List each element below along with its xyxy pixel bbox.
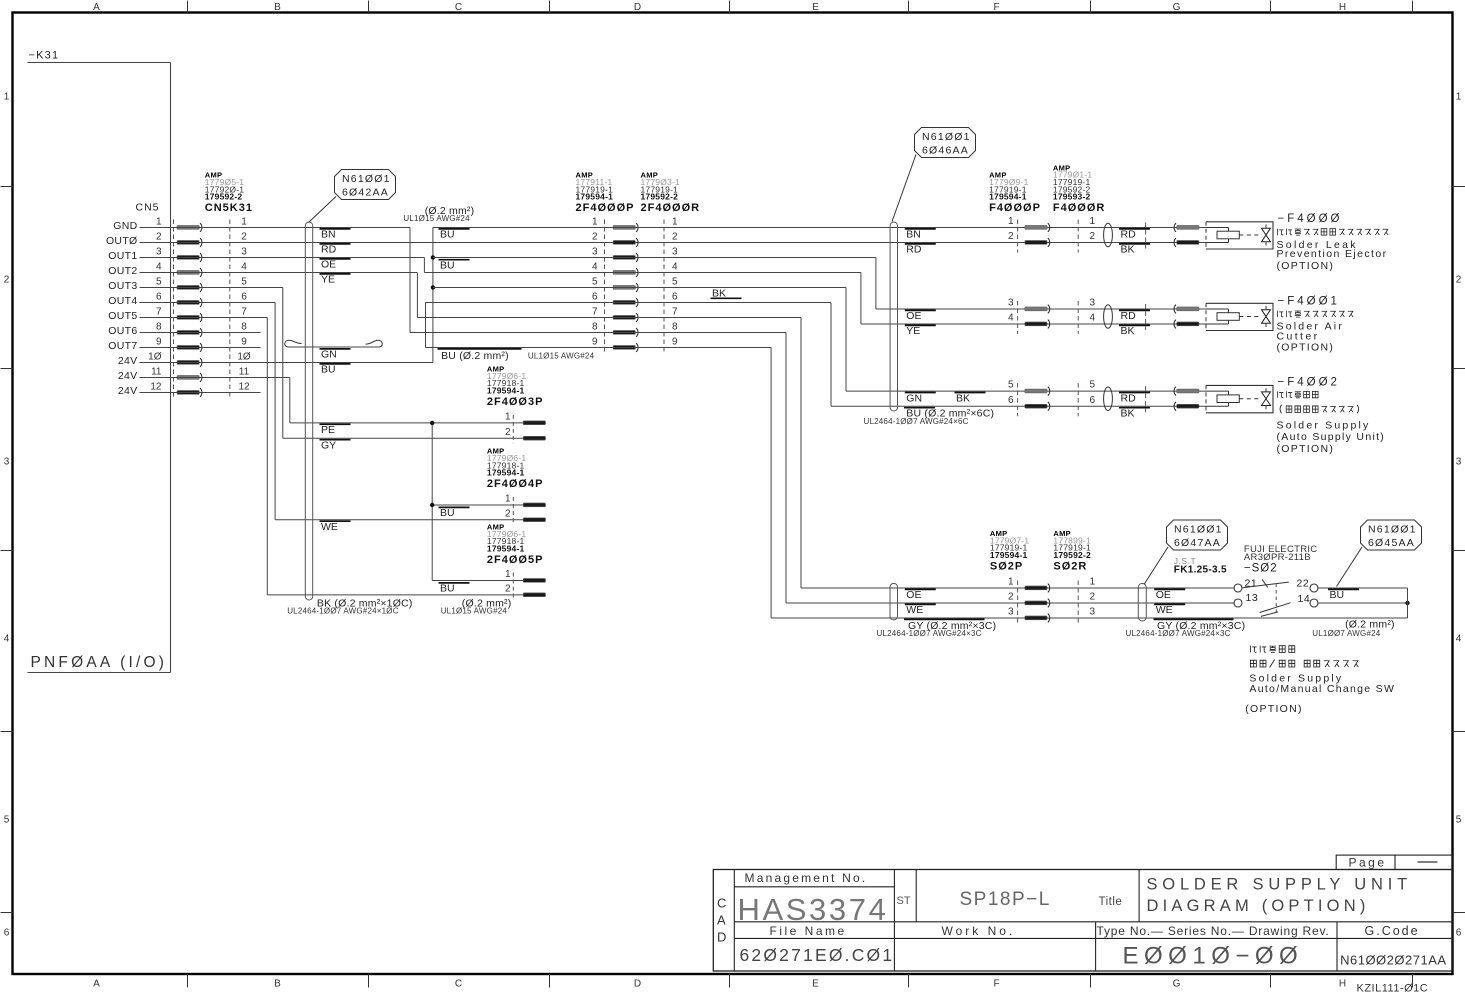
svg-text:−F4ØØ1: −F4ØØ1: [1278, 296, 1340, 308]
label BU pin9 wire: [438, 349, 595, 362]
connector 2F4003P: [487, 365, 546, 444]
svg-text:2: 2: [1456, 275, 1462, 286]
label WE row6 wire: [320, 521, 351, 533]
solenoid valve device F4000: [1206, 222, 1273, 249]
svg-text:OUT4: OUT4: [108, 295, 137, 307]
svg-text:2F4ØØ5P: 2F4ØØ5P: [487, 554, 544, 566]
svg-text:179594-1: 179594-1: [990, 550, 1028, 560]
svg-text:1: 1: [1008, 216, 1014, 227]
wire row5 to F4002 pin5: [433, 288, 1206, 392]
svg-text:5: 5: [156, 277, 162, 288]
svg-text:179594-1: 179594-1: [487, 543, 525, 553]
svg-text:C: C: [455, 979, 462, 990]
wire from terminal 22 BU: [1318, 588, 1408, 601]
svg-text:E: E: [812, 979, 819, 990]
svg-text:D: D: [717, 930, 726, 945]
label BU 2F4004P pin1: [439, 507, 470, 519]
F4001 description: [1277, 296, 1354, 354]
svg-text:5: 5: [672, 277, 678, 288]
svg-text:5: 5: [241, 277, 247, 288]
svg-text:3: 3: [592, 247, 598, 258]
wire row9 to S02 GY: [426, 348, 1408, 619]
connector 2F4005P: [487, 523, 546, 600]
svg-text:179594-1: 179594-1: [989, 192, 1027, 202]
connector CN5K31: [106, 171, 253, 399]
svg-text:BU: BU: [440, 260, 455, 272]
svg-text:4: 4: [241, 262, 247, 273]
svg-text:Prevention Ejector: Prevention Ejector: [1277, 248, 1388, 260]
svg-text:3: 3: [1090, 298, 1096, 309]
svg-text:OUTØ: OUTØ: [106, 235, 138, 247]
svg-text:File Name: File Name: [770, 924, 847, 938]
svg-text:22: 22: [1297, 578, 1310, 590]
svg-text:2: 2: [1090, 231, 1096, 242]
svg-text:F4ØØØR: F4ØØØR: [1053, 202, 1105, 214]
svg-text:BK: BK: [956, 392, 970, 404]
svg-text:Work No.: Work No.: [942, 924, 1016, 938]
svg-text:OUT1: OUT1: [108, 250, 137, 262]
wire CN5-3 OUT1 to pin4: [140, 258, 425, 273]
svg-text:2F4ØØØP: 2F4ØØØP: [576, 202, 635, 214]
svg-text:2F4ØØ4P: 2F4ØØ4P: [487, 478, 544, 490]
svg-text:6: 6: [156, 292, 162, 303]
label (0.2mm2) UL1015: [403, 205, 474, 223]
svg-text:2: 2: [1008, 231, 1014, 242]
svg-text:1: 1: [4, 92, 10, 103]
svg-text:3: 3: [156, 247, 162, 258]
svg-text:179592-2: 179592-2: [205, 192, 243, 202]
svg-text:N61ØØ1: N61ØØ1: [1174, 524, 1223, 536]
svg-text:1: 1: [505, 569, 511, 580]
svg-text:(OPTION): (OPTION): [1277, 443, 1335, 455]
wire CN5-5 OUT3 to 2F4003P pin2: [140, 288, 524, 439]
svg-text:3: 3: [1456, 457, 1462, 468]
svg-text:179594-1: 179594-1: [487, 385, 525, 395]
svg-text:UL2464-1ØØ7 AWG#24×3C: UL2464-1ØØ7 AWG#24×3C: [1126, 629, 1231, 638]
svg-text:OE: OE: [321, 259, 336, 271]
svg-text:SP18P−L: SP18P−L: [960, 889, 1051, 910]
svg-text:UL1Ø15 AWG#24: UL1Ø15 AWG#24: [528, 351, 595, 360]
svg-text:RD: RD: [906, 244, 922, 256]
svg-text:7: 7: [592, 307, 598, 318]
wire CN5-6 OUT4 to 2F4004P pin2: [140, 303, 524, 520]
svg-text:UL1Ø15 AWG#24: UL1Ø15 AWG#24: [441, 606, 508, 615]
connector 2F4000P: [576, 171, 639, 353]
svg-text:UL2464-1ØØ7 AWG#24×6C: UL2464-1ØØ7 AWG#24×6C: [864, 417, 969, 426]
svg-text:6Ø42AA: 6Ø42AA: [342, 187, 389, 199]
wire CN5-2 OUT0 straight to F4000 pin2: [140, 242, 1207, 244]
solenoid valve device F4001: [1206, 303, 1273, 330]
svg-text:1: 1: [156, 217, 162, 228]
svg-text:13: 13: [1246, 592, 1259, 604]
svg-text:6: 6: [1090, 395, 1096, 406]
svg-text:−SØ2: −SØ2: [1244, 562, 1278, 574]
svg-text:N61ØØ1: N61ØØ1: [1368, 524, 1417, 536]
svg-text:2: 2: [4, 275, 10, 286]
svg-text:C: C: [717, 896, 726, 911]
connector F4000R: [1053, 163, 1105, 214]
svg-text:OE: OE: [906, 589, 921, 601]
wire CN5-11 24V to 2F4003P pin1: [140, 378, 524, 423]
svg-text:9: 9: [592, 337, 598, 348]
coiled jumper GN: [285, 340, 383, 360]
label (0.2mm2) UL1007: [1312, 619, 1394, 639]
svg-text:BU: BU: [440, 507, 455, 519]
svg-text:RD: RD: [1121, 229, 1137, 241]
svg-text:6: 6: [672, 292, 678, 303]
svg-text:WE: WE: [1156, 604, 1173, 616]
svg-text:Title: Title: [1099, 896, 1123, 908]
svg-text:GN: GN: [906, 392, 922, 404]
svg-text:(OPTION): (OPTION): [1245, 703, 1303, 715]
svg-text:2: 2: [156, 232, 162, 243]
svg-text:OE: OE: [1156, 589, 1171, 601]
svg-text:1Ø: 1Ø: [237, 352, 251, 363]
label BU jumper pin3: [439, 260, 470, 272]
wire CN5-4 OUT2 to pin7: [140, 273, 418, 318]
svg-text:5: 5: [1456, 815, 1462, 826]
solenoid valve device F4002: [1206, 385, 1273, 412]
svg-text:B: B: [274, 979, 281, 990]
svg-text:WE: WE: [906, 604, 923, 616]
svg-text:9: 9: [672, 337, 678, 348]
svg-text:G.Code: G.Code: [1365, 924, 1420, 938]
svg-text:2F4ØØØR: 2F4ØØØR: [641, 202, 701, 214]
svg-text:3: 3: [1008, 607, 1014, 618]
svg-text:8: 8: [241, 322, 247, 333]
svg-text:8: 8: [156, 322, 162, 333]
switch S02 terminals and contacts: [1234, 578, 1318, 617]
wire row4 to F4001 pin4: [424, 273, 1206, 325]
svg-text:N61ØØ1: N61ØØ1: [922, 131, 971, 143]
svg-text:YE: YE: [906, 325, 920, 337]
F4000 description: [1277, 213, 1389, 272]
svg-text:SOLDER SUPPLY UNIT: SOLDER SUPPLY UNIT: [1147, 876, 1413, 894]
svg-text:6Ø46AA: 6Ø46AA: [922, 145, 969, 157]
svg-text:Management No.: Management No.: [745, 871, 868, 885]
svg-text:DIAGRAM (OPTION): DIAGRAM (OPTION): [1147, 897, 1370, 915]
svg-text:3: 3: [1008, 298, 1014, 309]
svg-text:179594-1: 179594-1: [576, 192, 614, 202]
svg-text:OUT6: OUT6: [108, 325, 137, 337]
wire CN5-8 stub: [140, 332, 261, 334]
svg-text:FK1.25-3.5: FK1.25-3.5: [1174, 565, 1227, 576]
wire from terminal 14: [1318, 601, 1410, 605]
svg-text:BU: BU: [440, 229, 455, 241]
svg-text:1: 1: [1456, 92, 1462, 103]
svg-text:B: B: [274, 2, 281, 13]
svg-text:179592-2: 179592-2: [1053, 550, 1091, 560]
cable sheath BK 10C: [287, 222, 412, 615]
svg-text:N61ØØ1: N61ØØ1: [342, 173, 391, 185]
svg-text:C: C: [455, 2, 462, 13]
FUJI ELECTRIC switch label: [1244, 544, 1318, 574]
svg-text:KZIL111-Ø1C: KZIL111-Ø1C: [1357, 983, 1429, 993]
svg-text:UL1Ø15 AWG#24: UL1Ø15 AWG#24: [403, 214, 470, 223]
svg-text:SØ2R: SØ2R: [1053, 561, 1087, 573]
svg-text:Page: Page: [1349, 856, 1387, 870]
connector 2F4004P: [487, 447, 546, 525]
svg-text:−F4ØØ2: −F4ØØ2: [1278, 377, 1340, 389]
svg-text:BU: BU: [440, 583, 455, 595]
svg-text:BU: BU: [321, 364, 336, 376]
svg-text:OE: OE: [906, 310, 921, 322]
svg-text:BK: BK: [712, 288, 726, 300]
svg-text:6Ø47AA: 6Ø47AA: [1174, 537, 1221, 549]
svg-text:UL1ØØ7 AWG#24: UL1ØØ7 AWG#24: [1312, 629, 1380, 638]
cable sheath GY 3C right: [1126, 583, 1246, 638]
svg-text:OUT2: OUT2: [108, 265, 137, 277]
svg-text:8: 8: [592, 322, 598, 333]
label GY row5 wire: [320, 440, 351, 452]
svg-text:2: 2: [592, 232, 598, 243]
svg-text:11: 11: [151, 367, 162, 378]
svg-text:BN: BN: [321, 229, 336, 241]
wire row6 BK to F4002 pin6: [426, 288, 1207, 407]
svg-text:1: 1: [505, 411, 511, 422]
svg-text:GN: GN: [321, 349, 337, 361]
svg-text:RD: RD: [1121, 392, 1137, 404]
drawing code KZIL111-01C: [1357, 983, 1429, 995]
svg-text:1: 1: [1008, 577, 1014, 588]
svg-text:OUT7: OUT7: [108, 340, 137, 352]
svg-text:H: H: [1339, 979, 1346, 990]
svg-text:5: 5: [1008, 380, 1014, 391]
svg-text:(Auto Supply Unit): (Auto Supply Unit): [1277, 431, 1386, 443]
svg-text:−K31: −K31: [29, 50, 60, 62]
svg-text:ST: ST: [897, 895, 911, 907]
wire row8 to S02 WE: [410, 333, 1234, 604]
F4002 pin pair: [1008, 380, 1199, 420]
svg-text:6: 6: [1008, 395, 1014, 406]
svg-text:6: 6: [1456, 928, 1462, 939]
page box: [1336, 855, 1452, 869]
balloon N61001 6047AA: [1144, 520, 1228, 585]
svg-text:8: 8: [672, 322, 678, 333]
svg-text:12: 12: [238, 382, 250, 393]
svg-text:6: 6: [4, 928, 10, 939]
svg-text:14: 14: [1298, 593, 1311, 605]
svg-text:3: 3: [672, 247, 678, 258]
cable sheath GY 3C left: [877, 583, 997, 638]
svg-text:(OPTION): (OPTION): [1277, 260, 1335, 272]
svg-text:2: 2: [505, 583, 511, 594]
connector F4000P: [989, 171, 1041, 215]
svg-text:6Ø45AA: 6Ø45AA: [1368, 537, 1415, 549]
label BU 2F4005P pin1: [439, 583, 470, 595]
svg-text:Type No.— Series No.— Drawing: Type No.— Series No.— Drawing Rev.: [1097, 924, 1330, 938]
svg-text:E: E: [812, 2, 819, 13]
balloon N61001 6042AA: [309, 170, 396, 223]
svg-text:A: A: [717, 913, 726, 928]
wire row1 to F4000: [433, 227, 1206, 229]
svg-text:7: 7: [156, 307, 162, 318]
svg-text:179592-2: 179592-2: [641, 192, 679, 202]
svg-text:3: 3: [1090, 607, 1096, 618]
svg-text:4: 4: [1456, 634, 1462, 645]
label PE row11 wire: [320, 424, 351, 436]
svg-text:−F4ØØØ: −F4ØØØ: [1278, 213, 1343, 225]
svg-text:GY: GY: [321, 440, 336, 452]
wire CN5-7 OUT5 to 2F4005P pin2: [140, 318, 524, 595]
wire CN5-12 stub: [140, 392, 261, 394]
F4000 pin pair: [1008, 216, 1199, 256]
label RD: [320, 244, 351, 256]
svg-text:4: 4: [672, 262, 678, 273]
svg-text:7: 7: [672, 307, 678, 318]
svg-text:24V: 24V: [118, 355, 138, 367]
F4001 pin pair: [1008, 298, 1199, 338]
svg-text:1: 1: [1090, 577, 1096, 588]
svg-text:1: 1: [241, 217, 247, 228]
svg-text:2: 2: [672, 232, 678, 243]
svg-text:BK: BK: [1121, 244, 1135, 256]
wire CN5-10 24V to BU distribution: [140, 362, 433, 364]
label YE: [320, 274, 351, 286]
svg-text:4: 4: [156, 262, 162, 273]
svg-text:4: 4: [4, 634, 10, 645]
svg-text:5: 5: [4, 815, 10, 826]
switch descriptions: [1245, 646, 1395, 715]
svg-text:RD: RD: [1121, 310, 1137, 322]
svg-text:6: 6: [241, 292, 247, 303]
svg-text:BN: BN: [906, 229, 921, 241]
svg-text:F: F: [993, 979, 999, 990]
label (0.2mm2) UL1015 bottom: [441, 598, 512, 616]
svg-text:RD: RD: [321, 244, 337, 256]
wire row7 to S02 OE: [417, 318, 1234, 589]
svg-text:3: 3: [241, 247, 247, 258]
svg-text:SØ2P: SØ2P: [990, 561, 1023, 573]
svg-text:OUT5: OUT5: [108, 310, 137, 322]
cable sheath BU 6C: [864, 222, 995, 426]
svg-text:1: 1: [1090, 216, 1096, 227]
svg-text:G: G: [1173, 2, 1181, 13]
svg-text:2: 2: [505, 427, 511, 438]
svg-text:BU: BU: [1330, 589, 1345, 601]
svg-text:5: 5: [1090, 380, 1096, 391]
connector 2F4000R: [641, 171, 701, 353]
connector S02R: [1053, 529, 1095, 623]
svg-text:CN5: CN5: [136, 202, 160, 214]
svg-text:1: 1: [672, 217, 678, 228]
wire CN5-9 stub: [140, 347, 261, 349]
svg-text:24V: 24V: [118, 370, 138, 382]
balloon N61001 6045AA: [1337, 520, 1422, 587]
svg-text:12: 12: [150, 382, 162, 393]
return wire vertical: [1407, 588, 1409, 618]
connector S02P: [990, 529, 1050, 623]
pins6-9 link wire: [426, 303, 614, 348]
svg-text:BK: BK: [1121, 325, 1135, 337]
svg-text:5: 5: [592, 277, 598, 288]
J.S.T terminal label: [1174, 556, 1227, 576]
svg-text:YE: YE: [321, 274, 335, 286]
svg-text:H: H: [1339, 2, 1346, 13]
svg-text:4: 4: [1090, 313, 1096, 324]
label BN: [320, 229, 351, 241]
svg-text:1: 1: [592, 217, 598, 228]
svg-text:9: 9: [241, 337, 247, 348]
svg-text:CN5K31: CN5K31: [205, 202, 253, 214]
svg-text:4: 4: [592, 262, 598, 273]
svg-text:PNFØAA (I/O): PNFØAA (I/O): [31, 654, 168, 671]
svg-text:GND: GND: [113, 220, 137, 232]
svg-text:UL2464-1ØØ7 AWG#24×1ØC: UL2464-1ØØ7 AWG#24×1ØC: [287, 606, 399, 615]
svg-text:1: 1: [505, 494, 511, 505]
svg-text:2: 2: [1008, 592, 1014, 603]
svg-text:2: 2: [241, 232, 247, 243]
svg-text:N61ØØ2Ø271AA: N61ØØ2Ø271AA: [1340, 953, 1446, 968]
svg-text:6: 6: [592, 292, 598, 303]
svg-text:1Ø: 1Ø: [148, 352, 162, 363]
BU distribution bus upper: [431, 228, 613, 363]
label OE: [320, 259, 351, 271]
svg-text:BU (Ø.2 mm²): BU (Ø.2 mm²): [441, 350, 509, 362]
svg-text:PE: PE: [321, 424, 335, 436]
BU bus lower to 2F4004P/2F4005P pin1: [430, 421, 523, 581]
label BU jumper pin1: [439, 229, 470, 241]
svg-text:BK: BK: [1121, 408, 1135, 420]
svg-text:4: 4: [1008, 313, 1014, 324]
svg-text:2: 2: [505, 508, 511, 519]
svg-text:9: 9: [156, 337, 162, 348]
svg-text:24V: 24V: [118, 385, 138, 397]
wire row3 to F4001 pin3: [433, 258, 1206, 310]
svg-text:F4ØØØP: F4ØØØP: [989, 202, 1041, 214]
svg-text:7: 7: [241, 307, 247, 318]
balloon N61001 6046AA: [892, 128, 976, 222]
svg-text:3: 3: [4, 457, 10, 468]
svg-text:11: 11: [239, 367, 250, 378]
svg-text:2: 2: [1090, 592, 1096, 603]
svg-text:F: F: [993, 2, 999, 13]
svg-text:A: A: [93, 2, 100, 13]
svg-text:Solder Supply: Solder Supply: [1277, 420, 1371, 432]
title block: [713, 870, 1452, 972]
svg-text:A: A: [93, 979, 100, 990]
svg-text:UL2464-1ØØ7 AWG#24×3C: UL2464-1ØØ7 AWG#24×3C: [877, 629, 982, 638]
svg-text:G: G: [1173, 979, 1181, 990]
label BU row10: [320, 364, 351, 376]
svg-text:(OPTION): (OPTION): [1277, 342, 1335, 354]
F4002 description: [1277, 377, 1386, 455]
svg-text:179593-2: 179593-2: [1053, 192, 1091, 202]
svg-text:62Ø271EØ.CØ1: 62Ø271EØ.CØ1: [740, 945, 895, 965]
wire CN5-1 GND to 2F4000P pin8: [140, 228, 411, 333]
svg-text:179594-1: 179594-1: [487, 468, 525, 478]
svg-text:D: D: [634, 979, 641, 990]
svg-text:EØØ1Ø−ØØ: EØØ1Ø−ØØ: [1123, 943, 1304, 970]
svg-text:HAS3374: HAS3374: [738, 892, 889, 927]
svg-text:2F4ØØ3P: 2F4ØØ3P: [487, 396, 544, 408]
svg-text:OUT3: OUT3: [108, 280, 137, 292]
svg-text:Auto/Manual Change SW: Auto/Manual Change SW: [1249, 683, 1395, 695]
svg-text:D: D: [634, 2, 641, 13]
svg-text:WE: WE: [321, 521, 338, 533]
I/O block K31 (PNF0AA): [28, 50, 171, 673]
